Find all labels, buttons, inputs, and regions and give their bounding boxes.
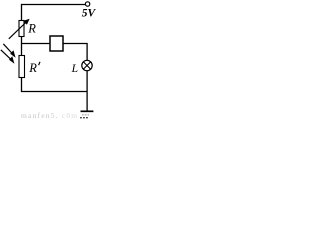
- lamp L cross: [83, 62, 90, 69]
- prime mark of R': [39, 62, 40, 65]
- lamp L circle: [82, 60, 92, 70]
- resistor R body: [19, 21, 24, 37]
- wire bottom horizontal: [21, 91, 87, 93]
- resistor R wiper arrow: [9, 22, 27, 39]
- svg-text:R: R: [28, 61, 37, 75]
- wire left vertical lower: [21, 78, 23, 93]
- ground bar 2: [82, 114, 89, 116]
- wire left vertical upper: [21, 4, 23, 21]
- svg-text:manfen5. c0m: manfen5. c0m: [21, 111, 78, 120]
- wire box to lamp branch: [63, 44, 87, 61]
- ground bar 3: [80, 117, 89, 119]
- ground bar 1: [81, 110, 94, 112]
- light arrow 1: [3, 44, 13, 54]
- light arrow 2: [1, 50, 12, 60]
- wire branch to box: [22, 43, 51, 45]
- svg-text:R: R: [27, 22, 36, 36]
- photoresistor R' body: [19, 56, 25, 78]
- svg-text:5V: 5V: [82, 8, 96, 20]
- box U1 (control module): [50, 36, 63, 51]
- wire lamp to ground: [86, 71, 88, 111]
- 5V supply terminal circle: [85, 2, 89, 6]
- svg-text:L: L: [71, 63, 78, 75]
- wire left vertical middle: [21, 37, 23, 56]
- wire top horizontal to 5V terminal: [21, 4, 85, 6]
